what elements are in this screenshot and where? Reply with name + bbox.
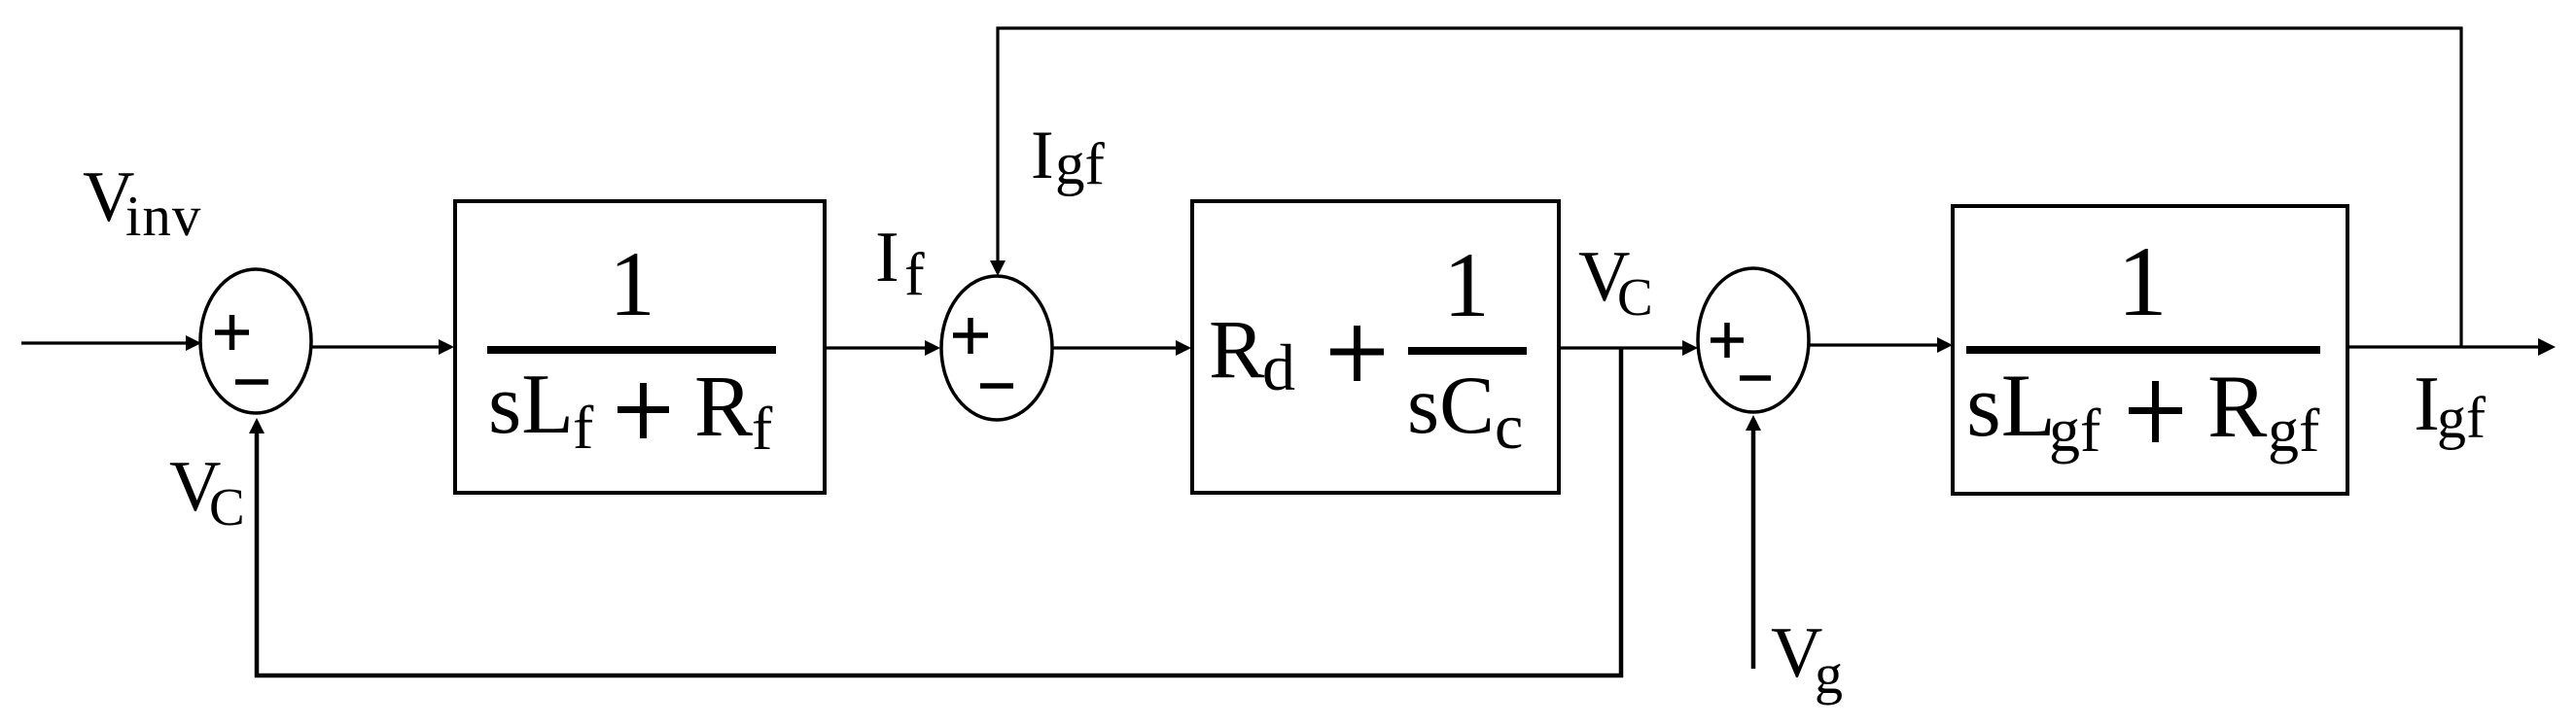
svg-text:d: d	[1262, 330, 1295, 404]
svg-text:I: I	[1031, 118, 1054, 193]
svg-text:gf: gf	[1055, 132, 1106, 197]
svg-text:gf: gf	[2049, 396, 2101, 465]
svg-text:R: R	[694, 359, 753, 455]
block G1 transfer function 1/(sLf+Rf)	[455, 201, 825, 493]
block G2 transfer function Rd + 1/(sCc)	[1192, 201, 1559, 493]
svg-text:gf: gf	[2268, 396, 2320, 465]
label Vg	[1771, 613, 1843, 706]
svg-text:c: c	[1495, 392, 1523, 463]
svg-text:sL: sL	[488, 358, 574, 452]
block G3 transfer function 1/(sLgf+Rgf)	[1953, 206, 2347, 494]
wire: G1 to S2	[825, 340, 940, 356]
S2 minus sign	[980, 383, 1013, 389]
svg-text:1: 1	[1443, 233, 1490, 336]
svg-text:f: f	[573, 393, 594, 462]
svg-text:sL: sL	[1966, 356, 2056, 455]
svg-text:I: I	[875, 218, 900, 297]
svg-text:1: 1	[609, 232, 655, 335]
label If	[875, 218, 925, 308]
wire: S3 to block G3	[1809, 337, 1953, 353]
svg-text:R: R	[1209, 302, 1265, 396]
summing junction S2	[941, 276, 1052, 420]
wire: S1 to block G1	[311, 339, 454, 355]
svg-text:C: C	[209, 477, 245, 537]
svg-text:1: 1	[2117, 226, 2168, 337]
svg-text:C: C	[1617, 267, 1653, 327]
wire: VC feedback from G2 output down and back into S1	[249, 348, 1621, 675]
svg-text:inv: inv	[125, 184, 201, 248]
wire: Vinv input arrow into summing junction S1	[21, 335, 201, 351]
svg-text:f: f	[904, 242, 925, 308]
S3 plus sign	[1711, 323, 1744, 358]
label Igf (output)	[2414, 360, 2486, 450]
S1 minus sign	[235, 379, 268, 385]
summing junction S3	[1698, 268, 1809, 412]
label VC (feedback branch)	[169, 447, 245, 537]
wire: G2 to S3	[1559, 340, 1698, 356]
svg-text:g: g	[1815, 642, 1843, 706]
label Igf (feedback branch)	[1031, 118, 1106, 197]
wire: Igf feedback from output top line into S2	[990, 28, 2461, 346]
S3 minus sign	[1740, 375, 1771, 381]
svg-text:gf: gf	[2437, 386, 2486, 450]
svg-text:sC: sC	[1407, 360, 1495, 451]
wire: Vg input arrow into S3	[1746, 415, 1761, 669]
svg-text:R: R	[2207, 357, 2268, 456]
svg-text:I: I	[2414, 360, 2440, 447]
wire: S2 to block G2	[1052, 340, 1191, 356]
S1 plus sign	[215, 315, 249, 350]
label Vinv	[83, 157, 201, 248]
S2 plus sign	[953, 318, 988, 354]
summing junction S1	[200, 269, 311, 413]
label VC at G2 output	[1578, 237, 1653, 327]
wire: Igf output arrow	[2347, 338, 2556, 356]
svg-text:f: f	[752, 394, 773, 463]
